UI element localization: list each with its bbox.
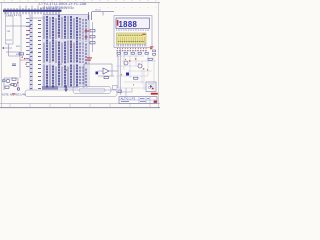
wire: mid cluster links [84,56,118,88]
diode D2 [150,85,153,88]
title block cell marks [121,98,149,102]
polarity marks red bottom-left [10,82,19,85]
svg-text:a b c d e f g: a b c d e f g [8,14,21,17]
resistor R5 [19,53,24,55]
polarity marks red left [24,30,30,59]
LCD1 bottom text row [118,40,144,42]
title block outline [119,97,157,104]
title block dividers [119,97,157,104]
LCD module LCD1 body [117,33,147,44]
sheet frame bottom outer border [0,107,160,109]
IC U2 light pad columns [44,16,74,86]
wire: below SW1 [4,44,20,56]
bus: segment line array thin wires [43,15,89,88]
wire: display feed horizontal [92,11,114,13]
bus pin ticks [5,8,59,14]
bottom-left component cluster [3,78,20,90]
svg-text:1 2 3 4 5 6 7 8 9 10 11 12 13: 1 2 3 4 5 6 7 8 9 10 11 12 13 [44,7,73,9]
pin name text row under LCD [117,50,147,51]
display module outer box [114,16,152,48]
wire: left vertical bundle [30,14,32,90]
sheet frame top border [0,2,160,4]
transistor Q2 [138,64,142,68]
inductor L1 glyph [88,12,92,20]
svg-text:ALT-0.1 F3: ALT-0.1 F3 [121,97,136,101]
wire: stripe region top rail [43,14,88,16]
wire: right rail vertical [119,48,121,96]
svg-text:J-TYU-3T12-DB01-LY-FC-2AB: J-TYU-3T12-DB01-LY-FC-2AB [38,2,87,6]
sheet bottom zone ticks [10,103,150,107]
LCD1 cell dividers [118,37,144,43]
capacitor C15 [118,90,122,93]
resistor row under LCD [117,52,148,54]
LCD1 top text row [118,34,143,36]
node junction dots left [29,25,32,60]
wire: right mesh horizontals [116,56,156,88]
display low-battery red mark [117,20,119,26]
bus stub wires up [20,6,56,8]
bus: main segment bus [3,10,62,12]
sheet top ruler ticks [4,0,156,1]
red dot inner column [26,35,28,65]
wire loop: inner return bus B [73,87,111,94]
wire: bus drop left x6 [5,12,7,16]
ref text red R stack [85,31,90,38]
svg-text:470K: 470K [16,54,22,56]
wire: above title block [116,88,132,97]
wire: vertical x21 [20,14,22,56]
polarity marks red right [129,46,154,89]
connector J2 bottom pad band [43,86,57,90]
wire: R stack link [92,22,94,52]
transistor Q1 [124,61,128,65]
pin label red row under LCD [117,48,146,49]
inner pin label column [26,18,29,67]
switch block SW1 tall box [6,16,14,44]
sheet frame left border [1,3,3,108]
sheet frame bottom inner border [0,102,160,104]
resistor R41 [104,77,108,79]
IC U2b sparse right columns [80,18,86,87]
arrow terminal [2,47,4,49]
svg-text:1888: 1888 [119,20,138,29]
wire: bottom-left links [4,78,18,90]
svg-text:VLCD: VLCD [95,10,101,12]
capacitor C1 [12,64,16,66]
wire: left horizontal links [6,18,43,78]
relay K1 box [146,82,156,92]
wire loop: outer return bus [25,90,117,97]
logo red bar [151,93,158,95]
connector J2b lighter band [59,86,77,89]
ref text red mid [87,57,92,60]
sheet grid dots right [100,6,156,9]
title block red stamp [154,101,157,103]
component stack right edge [153,50,156,55]
wire loop: inner return bus C [79,88,105,92]
relay K1 internals [148,84,154,90]
resistor R23 [90,42,95,44]
resistor R33 [148,58,152,60]
resistor R22 [90,36,95,38]
resistor R34 [134,77,138,79]
wire: right verticals [124,53,154,92]
test point dots orange [47,33,72,77]
IC U2 dark pad chain columns [47,15,77,88]
LCD1 pin ticks [117,44,146,46]
display pin text row [117,29,149,31]
pin label column left of IC [30,20,41,89]
wire: vertical riser x103 [102,12,104,16]
sheet frame right border [157,3,159,108]
capacitor C12 body [126,73,129,76]
op-amp U4 [103,68,109,74]
ground arrow symbol [64,85,68,92]
resistor R21 [90,30,95,32]
note text red mark [12,93,15,94]
red dot R5 [22,57,23,58]
capacitor C9 body [96,72,99,75]
ref text red inside LCD right [143,34,146,35]
wire: right column feeder x89 [88,20,90,64]
display DS1 bezel [116,18,150,29]
connector J3 [113,86,118,90]
small red dots right mesh [117,55,148,85]
